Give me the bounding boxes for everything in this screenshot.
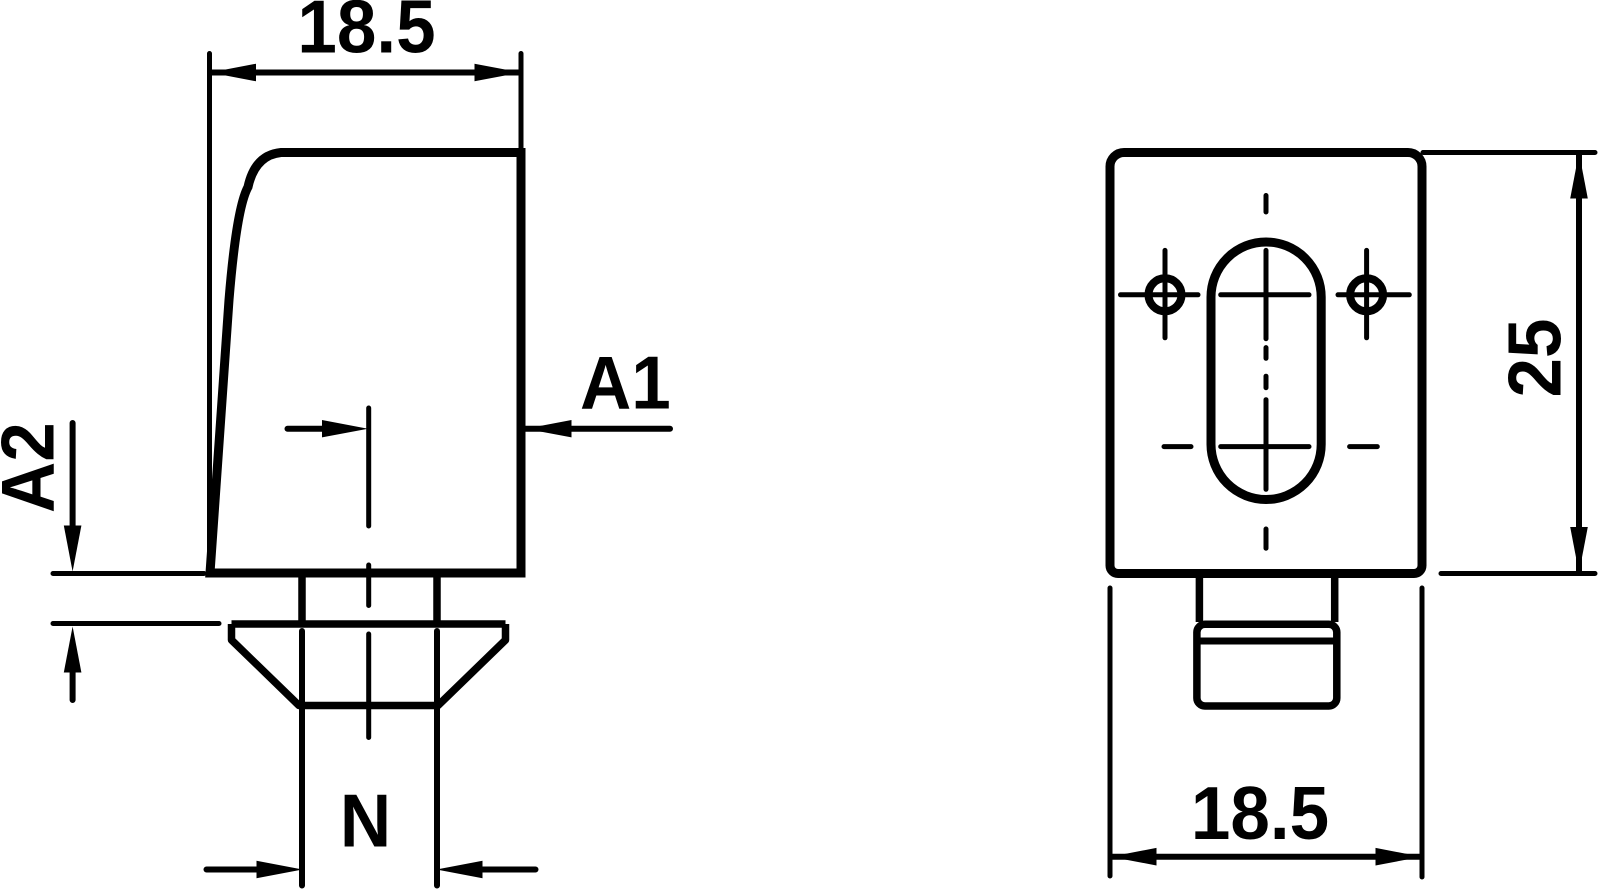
svg-text:A2: A2 — [0, 422, 70, 513]
svg-text:18.5: 18.5 — [1191, 771, 1329, 855]
svg-text:A1: A1 — [580, 341, 671, 425]
svg-text:18.5: 18.5 — [297, 0, 435, 69]
svg-text:25: 25 — [1493, 319, 1577, 398]
svg-text:N: N — [340, 779, 391, 863]
